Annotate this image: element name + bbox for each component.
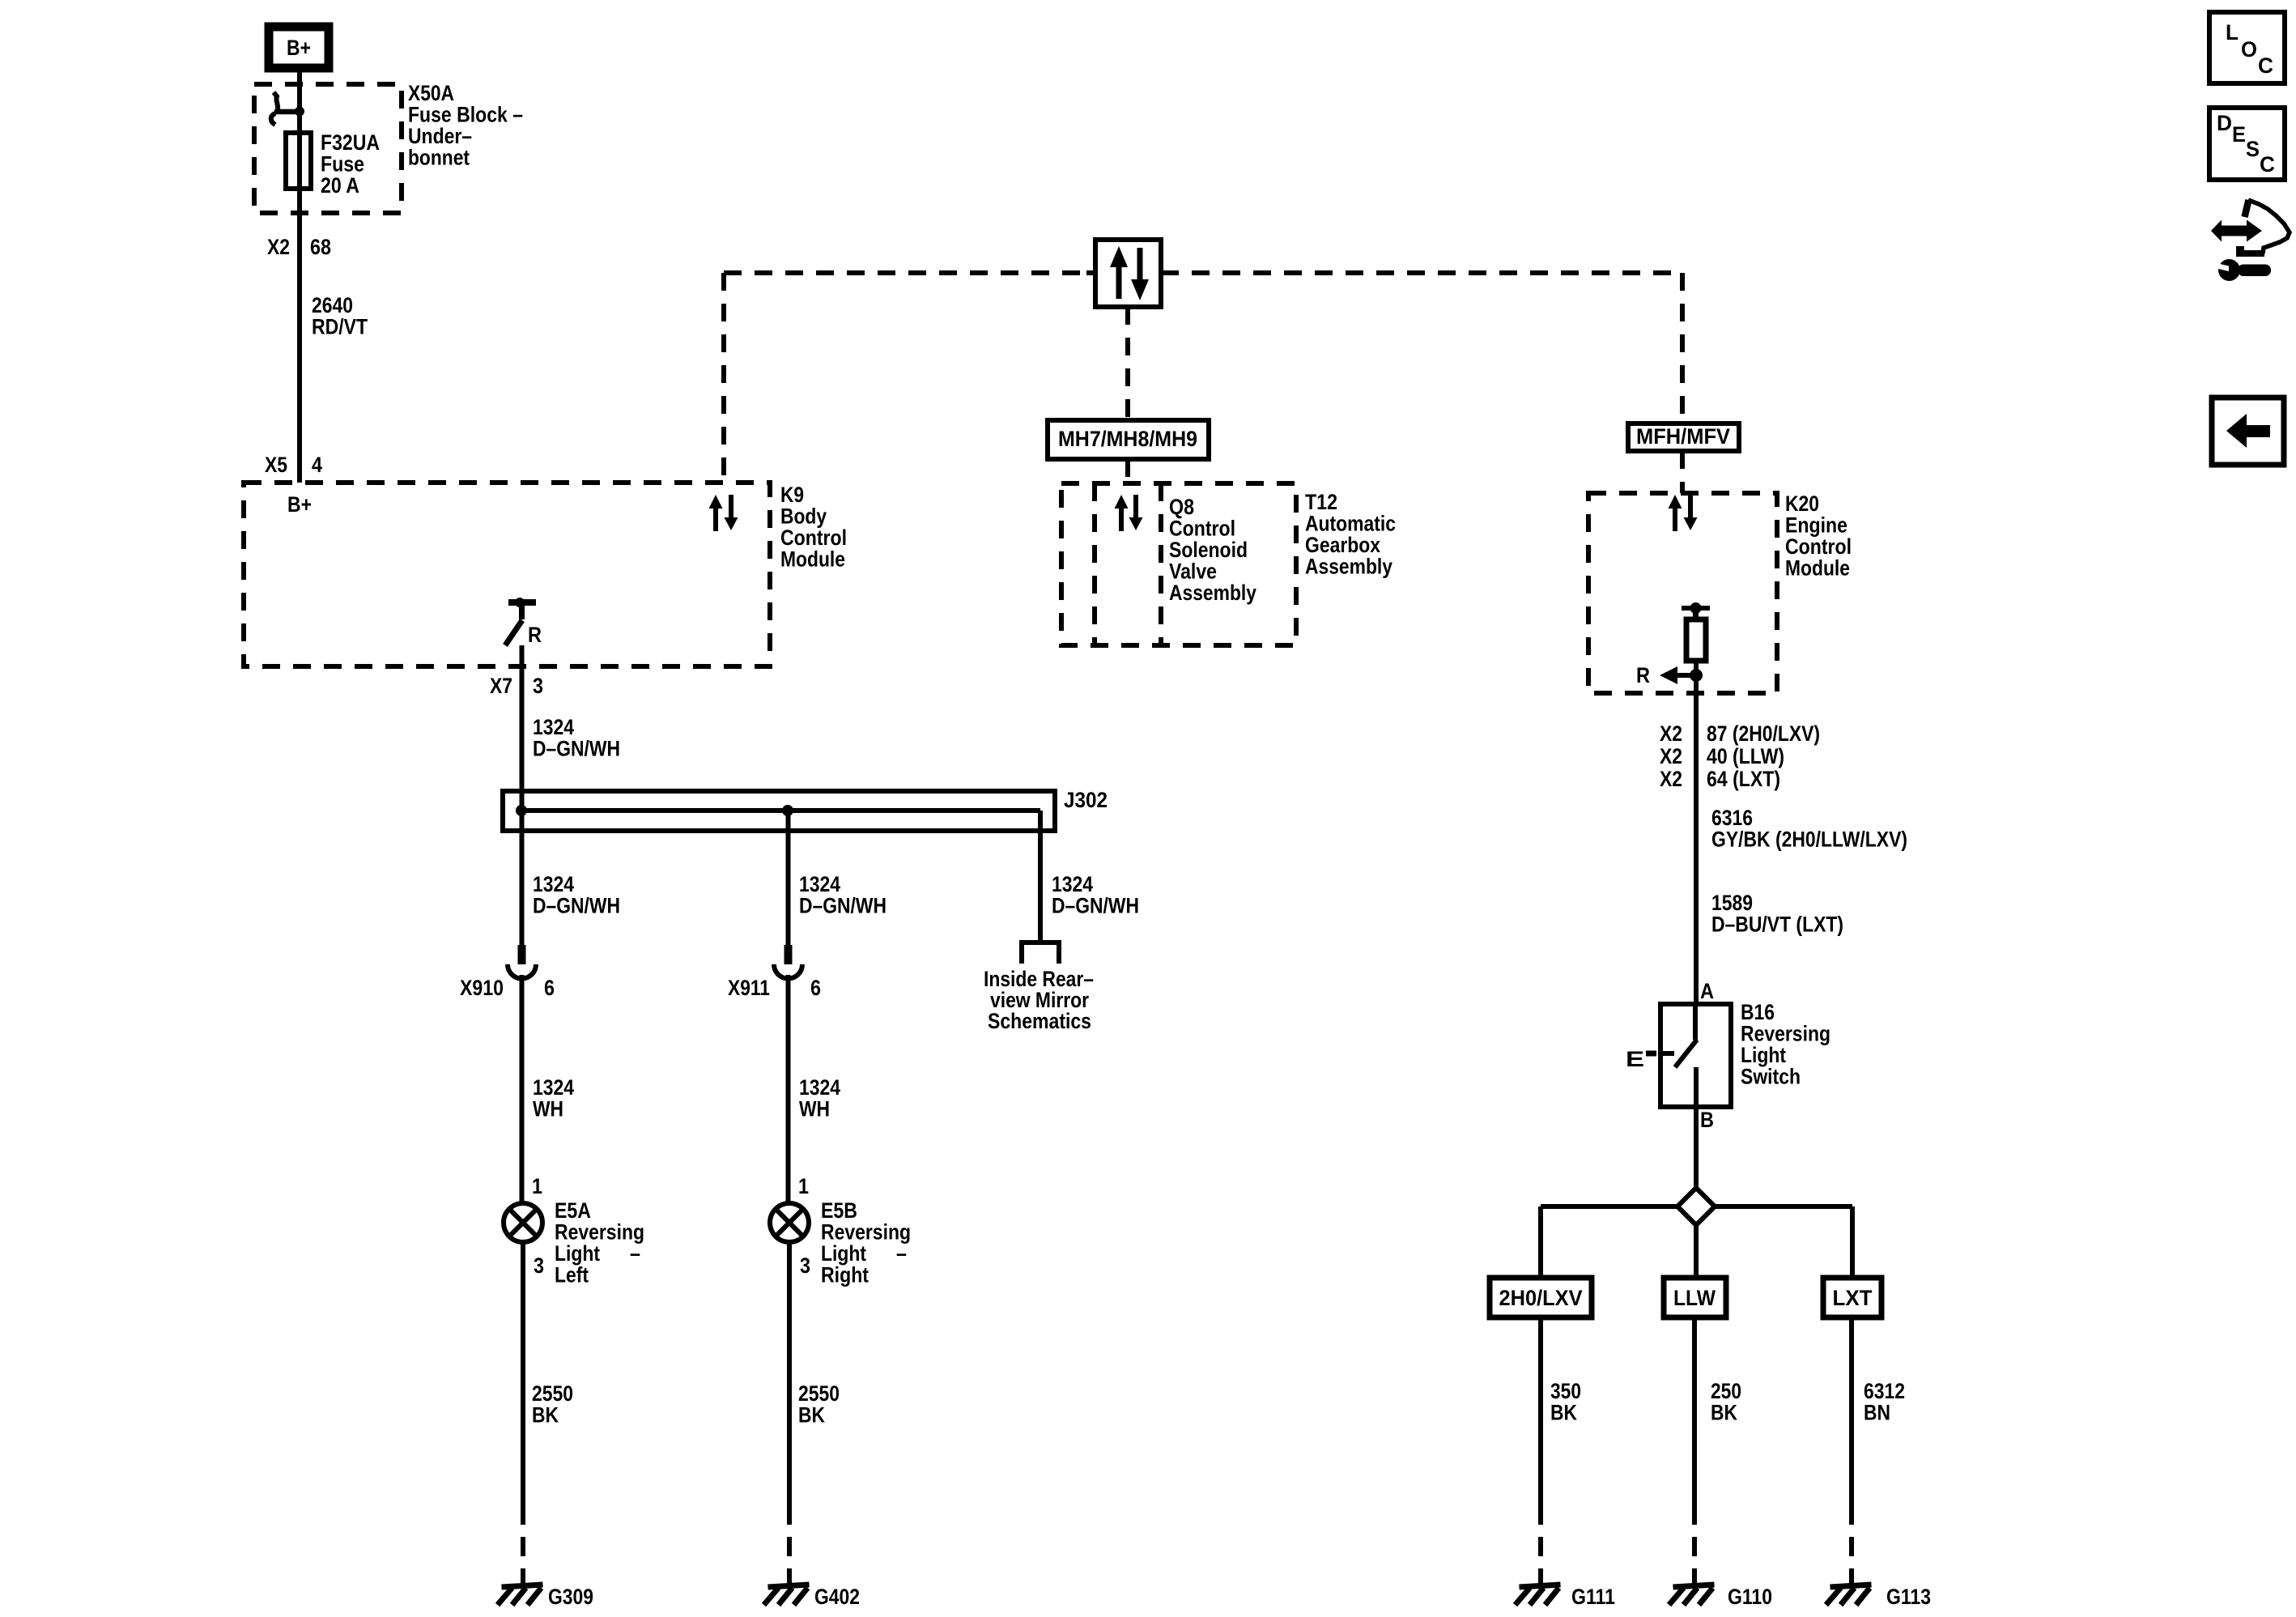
splice pack J302 bus bar [521, 808, 1040, 813]
net name box MH7/MH8/MH9 [1048, 420, 1209, 459]
icon DESC button [2209, 108, 2285, 180]
svg-text:K9: K9 [780, 483, 804, 507]
wire J302 to mirror off-page [1038, 811, 1043, 943]
svg-text:6: 6 [810, 976, 821, 1000]
svg-text:68: 68 [310, 235, 331, 259]
serial data arrows inside T12 [1115, 495, 1143, 531]
switch B16 contacts [1675, 1004, 1697, 1107]
svg-text:BN: BN [1864, 1401, 1890, 1425]
svg-text:B: B [1700, 1108, 1714, 1132]
ground G110 [1692, 1574, 1697, 1589]
svg-text:bonnet: bonnet [408, 146, 470, 170]
dashed wire link box to MH7 label [1125, 307, 1130, 420]
svg-text:O: O [2241, 37, 2257, 62]
svg-text:BK: BK [532, 1403, 559, 1428]
svg-text:Gearbox: Gearbox [1305, 533, 1380, 557]
wire E5A to ground [521, 1242, 525, 1505]
svg-text:Schematics: Schematics [988, 1009, 1091, 1033]
pull-up resistor inside K20 [1682, 602, 1710, 674]
power feed B+ symbol [269, 27, 329, 68]
svg-text:Assembly: Assembly [1305, 555, 1392, 579]
svg-text:F32UA: F32UA [321, 130, 380, 155]
svg-text:C: C [2260, 152, 2275, 177]
svg-text:40 (LLW): 40 (LLW) [1707, 744, 1784, 768]
svg-text:–: – [630, 1241, 640, 1266]
option box 2H0/LXV [1490, 1278, 1592, 1317]
svg-text:G110: G110 [1728, 1585, 1772, 1609]
svg-text:Reversing: Reversing [821, 1220, 911, 1245]
wire 350 BK [1538, 1317, 1543, 1505]
dashed wire MFH/MFV to K20 [1680, 451, 1685, 493]
assembly T12 outer dashed box [1061, 483, 1296, 645]
switch R inside K9 [505, 598, 536, 645]
svg-text:1324: 1324 [533, 1075, 574, 1100]
svg-text:Under–: Under– [408, 124, 472, 148]
dashed wire to G110 [1692, 1505, 1697, 1575]
svg-text:Right: Right [821, 1263, 869, 1287]
svg-text:D–GN/WH: D–GN/WH [533, 894, 620, 918]
serial data arrows inside K20 [1669, 495, 1698, 531]
svg-text:2550: 2550 [798, 1381, 840, 1406]
svg-text:X911: X911 [728, 976, 770, 1000]
lamp E5B reversing light right [770, 1203, 809, 1242]
svg-text:Module: Module [1785, 556, 1850, 581]
svg-text:G402: G402 [814, 1585, 860, 1609]
dashed serial data line right segment [1161, 270, 1682, 275]
svg-text:X2: X2 [1660, 767, 1682, 791]
svg-text:X2: X2 [1660, 721, 1682, 746]
svg-text:1324: 1324 [799, 1075, 840, 1100]
svg-text:6: 6 [544, 976, 555, 1000]
svg-text:X2: X2 [1660, 744, 1682, 768]
switch B16 box [1660, 1004, 1731, 1107]
wire X911 to lamp E5B [786, 975, 791, 1203]
icon back button [2212, 398, 2284, 465]
svg-text:Valve: Valve [1169, 560, 1217, 584]
svg-text:20 A: 20 A [321, 173, 359, 198]
dashed wire to G111 [1538, 1505, 1543, 1575]
serial data link box [1095, 240, 1161, 307]
svg-text:Control: Control [1785, 534, 1852, 559]
splice pack J302 box [503, 791, 1055, 831]
dashed wire serial line to MFH/MFV [1680, 273, 1685, 423]
svg-text:LLW: LLW [1673, 1286, 1716, 1310]
svg-text:C: C [2258, 53, 2273, 78]
svg-text:D–BU/VT (LXT): D–BU/VT (LXT) [1711, 913, 1843, 937]
svg-text:X7: X7 [490, 674, 512, 698]
inline connector X911 [774, 945, 802, 979]
svg-text:Control: Control [780, 526, 847, 550]
svg-text:B+: B+ [287, 492, 312, 517]
svg-text:X5: X5 [265, 453, 287, 477]
svg-text:X910: X910 [460, 976, 504, 1000]
module K9 dashed box [244, 483, 770, 666]
svg-text:G113: G113 [1886, 1585, 1931, 1609]
svg-text:Reversing: Reversing [1741, 1022, 1830, 1046]
svg-text:6316: 6316 [1711, 806, 1753, 830]
svg-text:B16: B16 [1741, 1000, 1775, 1024]
svg-text:B+: B+ [287, 36, 311, 60]
svg-text:G111: G111 [1571, 1585, 1615, 1609]
serial data arrows inside K9 [709, 495, 738, 531]
svg-text:Solenoid: Solenoid [1169, 538, 1248, 562]
svg-text:Module: Module [780, 547, 845, 572]
svg-text:BK: BK [1550, 1401, 1577, 1425]
svg-text:1: 1 [798, 1174, 809, 1198]
svg-text:WH: WH [533, 1097, 563, 1121]
svg-text:G309: G309 [548, 1585, 593, 1609]
right branch wire to LXT [1850, 1206, 1855, 1278]
wire 250 BK [1692, 1317, 1697, 1505]
svg-text:D–GN/WH: D–GN/WH [799, 894, 887, 918]
fuse block X50A dashed box [254, 84, 402, 213]
svg-text:D–GN/WH: D–GN/WH [1052, 894, 1139, 918]
R sense arrow inside K20 [1660, 666, 1703, 684]
svg-text:R: R [528, 623, 542, 647]
dashed serial data line left segment [724, 270, 1095, 275]
ground G402 [787, 1574, 792, 1589]
svg-text:L: L [2226, 20, 2239, 45]
inner dashed partition left [1092, 483, 1097, 645]
connector hook symbol inside fuse block [274, 92, 278, 109]
dashed wire to G113 [1849, 1505, 1854, 1575]
svg-text:K20: K20 [1785, 491, 1819, 516]
ground G309 [521, 1574, 525, 1589]
svg-text:R: R [1636, 663, 1650, 687]
svg-text:T12: T12 [1305, 490, 1337, 514]
svg-text:MH7/MH8/MH9: MH7/MH8/MH9 [1058, 427, 1197, 451]
wire 6312 BN [1849, 1317, 1854, 1505]
wire J302 to X910 [520, 811, 525, 945]
left branch wire to 2H0/LXV [1538, 1206, 1543, 1278]
svg-text:350: 350 [1550, 1379, 1581, 1403]
inline connector X910 [508, 945, 536, 979]
icon connector-view tool [2211, 200, 2290, 257]
off-page bracket to mirror schematics [1022, 943, 1059, 964]
svg-text:MFH/MFV: MFH/MFV [1636, 424, 1730, 449]
svg-text:X2: X2 [267, 235, 290, 259]
svg-text:Automatic: Automatic [1305, 512, 1396, 536]
svg-text:E5A: E5A [555, 1198, 591, 1223]
stub at link box left edge [1086, 270, 1095, 275]
svg-text:J302: J302 [1064, 788, 1108, 812]
serial data arrows in link box [1110, 246, 1149, 300]
svg-text:1324: 1324 [533, 872, 574, 896]
option box LLW [1664, 1278, 1726, 1317]
svg-text:Switch: Switch [1741, 1065, 1801, 1089]
svg-text:Light: Light [555, 1241, 600, 1266]
svg-text:Body: Body [780, 504, 827, 529]
svg-text:2640: 2640 [312, 293, 353, 317]
svg-text:64 (LXT): 64 (LXT) [1707, 767, 1780, 791]
wire B16 to splice diamond [1694, 1107, 1699, 1188]
wire K20 to switch B16 [1694, 675, 1699, 1004]
svg-text:E: E [1626, 1047, 1644, 1071]
wire J302 to X911 [786, 811, 791, 945]
svg-text:3: 3 [534, 1253, 544, 1278]
option box LXT [1823, 1278, 1881, 1317]
svg-text:X50A: X50A [408, 81, 454, 105]
svg-text:1: 1 [532, 1174, 542, 1198]
svg-text:WH: WH [799, 1097, 830, 1121]
svg-text:D–GN/WH: D–GN/WH [533, 737, 620, 761]
svg-text:LXT: LXT [1833, 1286, 1873, 1310]
svg-text:E5B: E5B [821, 1198, 857, 1223]
junction dot middle [782, 805, 793, 816]
svg-text:Q8: Q8 [1169, 495, 1194, 519]
svg-text:Fuse Block –: Fuse Block – [408, 103, 523, 127]
svg-text:Fuse: Fuse [321, 152, 364, 177]
svg-text:BK: BK [798, 1403, 825, 1428]
wire X910 to lamp E5A [520, 975, 525, 1203]
wire from switch R to X7 pin [520, 645, 525, 811]
svg-text:Assembly: Assembly [1169, 581, 1256, 605]
svg-text:S: S [2246, 137, 2260, 161]
wire E5B to ground [787, 1242, 792, 1505]
svg-text:GY/BK (2H0/LLW/LXV): GY/BK (2H0/LLW/LXV) [1711, 828, 1907, 852]
dashed wire to G402 [787, 1505, 792, 1575]
svg-text:–: – [896, 1241, 907, 1266]
svg-text:1324: 1324 [1052, 872, 1093, 896]
wire through fuse [297, 111, 302, 213]
svg-text:Engine: Engine [1785, 513, 1847, 538]
svg-text:250: 250 [1711, 1379, 1741, 1403]
svg-text:4: 4 [312, 453, 322, 477]
svg-text:3: 3 [533, 674, 543, 698]
wire splice to branches [1541, 1204, 1677, 1209]
svg-text:Left: Left [555, 1263, 589, 1287]
svg-text:RD/VT: RD/VT [312, 315, 368, 339]
svg-text:2550: 2550 [532, 1381, 573, 1406]
svg-text:1324: 1324 [799, 872, 840, 896]
svg-text:Control: Control [1169, 517, 1235, 541]
dashed wire to G309 [521, 1505, 525, 1575]
svg-text:1324: 1324 [533, 715, 574, 739]
svg-text:2H0/LXV: 2H0/LXV [1499, 1286, 1583, 1310]
dashed wire MH7 label to gearbox [1125, 459, 1130, 483]
middle branch wire to LLW [1694, 1225, 1699, 1278]
svg-text:6312: 6312 [1864, 1379, 1905, 1403]
wire 2640 RD/VT [297, 213, 302, 483]
wire B+ to fuse block [297, 72, 302, 113]
svg-text:3: 3 [800, 1253, 810, 1278]
dashed wire from serial-data line into K9 [721, 273, 726, 483]
svg-text:Light: Light [1741, 1043, 1786, 1067]
ground G111 [1538, 1574, 1543, 1589]
ground G113 [1849, 1574, 1854, 1589]
icon wrench [2217, 259, 2271, 281]
icon LOC button [2209, 12, 2285, 83]
svg-text:A: A [1700, 979, 1714, 1003]
svg-text:Reversing: Reversing [555, 1220, 644, 1245]
component Q8 dashed partition [1159, 483, 1163, 645]
svg-text:BK: BK [1711, 1401, 1737, 1425]
svg-text:D: D [2217, 111, 2232, 135]
svg-text:Light: Light [821, 1241, 866, 1266]
module K20 dashed box [1588, 493, 1777, 693]
junction dot at fuse feed [295, 107, 304, 117]
splice diamond [1677, 1188, 1715, 1225]
lamp E5A reversing light left [504, 1203, 542, 1242]
junction dot left [516, 805, 527, 816]
svg-text:1589: 1589 [1711, 891, 1753, 915]
fuse F32UA [286, 133, 311, 189]
net name box MFH/MFV [1628, 423, 1739, 451]
svg-text:87 (2H0/LXV): 87 (2H0/LXV) [1707, 721, 1820, 746]
svg-text:E: E [2232, 122, 2246, 147]
